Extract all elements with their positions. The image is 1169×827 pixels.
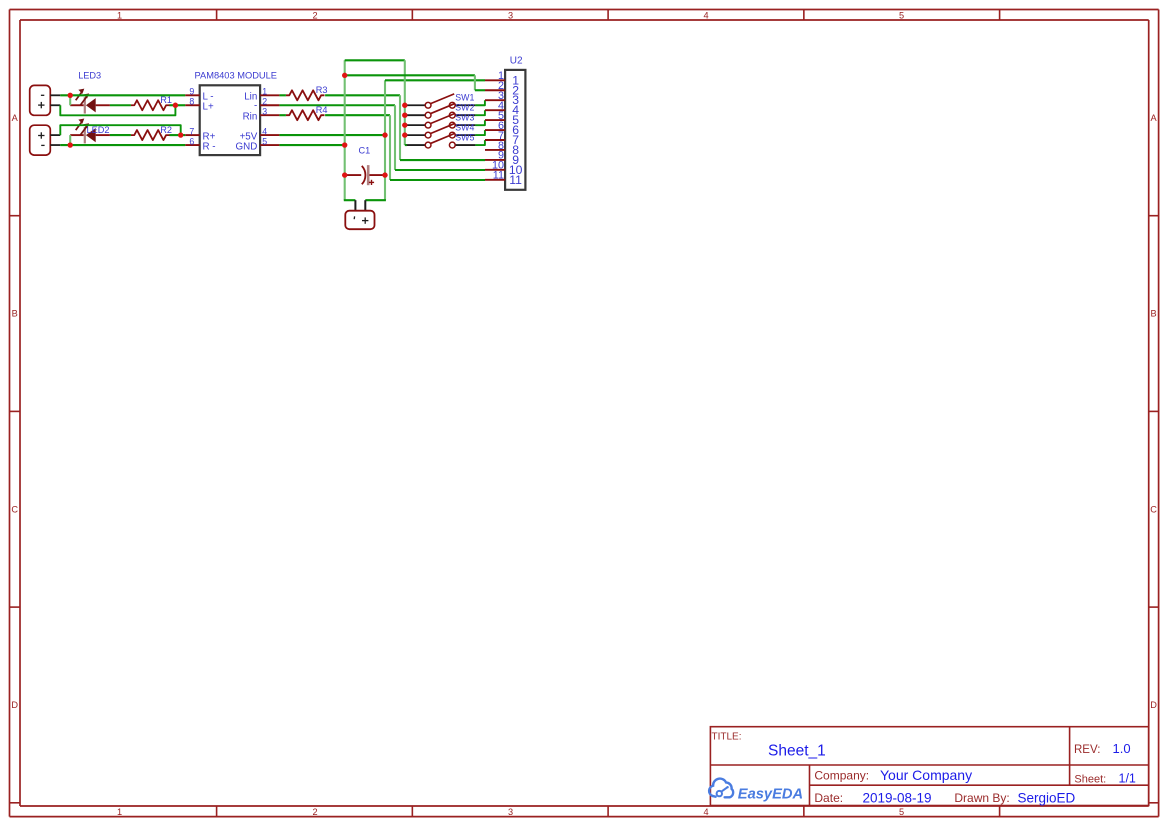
svg-text:5: 5 [899, 10, 904, 20]
svg-text:EasyEDA: EasyEDA [738, 786, 803, 802]
svg-text:LED2: LED2 [87, 125, 110, 135]
svg-text:5: 5 [899, 807, 904, 817]
svg-text:R3: R3 [316, 85, 328, 95]
svg-text:R4: R4 [316, 105, 328, 115]
svg-text:B: B [12, 309, 18, 319]
svg-text:5: 5 [262, 136, 267, 146]
svg-text:2: 2 [312, 10, 317, 20]
svg-text:2019-08-19: 2019-08-19 [863, 791, 932, 806]
svg-text:B: B [1151, 309, 1157, 319]
svg-text:Sheet:: Sheet: [1074, 774, 1106, 786]
svg-text:Company:: Company: [814, 769, 869, 783]
svg-text:SW4: SW4 [455, 123, 474, 133]
svg-text:U2: U2 [510, 56, 523, 67]
svg-text:R2: R2 [160, 125, 172, 135]
svg-text:SW2: SW2 [455, 103, 474, 113]
svg-text:A: A [12, 113, 19, 123]
svg-text:1: 1 [117, 807, 122, 817]
svg-text:Date:: Date: [814, 791, 843, 805]
svg-text:SergioED: SergioED [1018, 791, 1076, 806]
svg-text:LED3: LED3 [78, 70, 101, 80]
svg-text:-: - [254, 101, 257, 112]
svg-text:4: 4 [262, 126, 267, 136]
svg-text:2: 2 [262, 96, 267, 106]
svg-text:R1: R1 [160, 95, 172, 105]
svg-text:REV:: REV: [1074, 744, 1100, 756]
svg-text:L+: L+ [203, 101, 214, 112]
svg-text:R -: R - [203, 141, 216, 152]
svg-text:D: D [1150, 700, 1157, 710]
svg-text:Your Company: Your Company [880, 767, 972, 783]
svg-text:3: 3 [262, 106, 267, 116]
svg-text:Sheet_1: Sheet_1 [768, 743, 826, 760]
svg-text:SW1: SW1 [455, 93, 474, 103]
svg-text:SW3: SW3 [455, 113, 474, 123]
svg-text:11: 11 [493, 170, 504, 182]
svg-text:6: 6 [189, 136, 194, 146]
svg-text:7: 7 [189, 126, 194, 136]
svg-text:C: C [1150, 504, 1157, 514]
svg-text:2: 2 [312, 807, 317, 817]
svg-text:9: 9 [189, 87, 194, 97]
svg-text:C: C [11, 504, 18, 514]
svg-text:1: 1 [117, 10, 122, 20]
svg-text:1/1: 1/1 [1119, 772, 1136, 786]
svg-text:4: 4 [703, 10, 708, 20]
svg-text:SW5: SW5 [455, 132, 474, 142]
svg-text:3: 3 [508, 10, 513, 20]
svg-text:PAM8403 MODULE: PAM8403 MODULE [195, 71, 278, 81]
svg-text:3: 3 [508, 807, 513, 817]
svg-text:A: A [1151, 113, 1158, 123]
svg-text:1.0: 1.0 [1113, 741, 1131, 756]
svg-text:11: 11 [509, 173, 522, 187]
svg-text:C1: C1 [359, 146, 371, 156]
svg-text:D: D [11, 700, 18, 710]
svg-text:TITLE:: TITLE: [712, 732, 742, 743]
svg-text:4: 4 [703, 807, 708, 817]
svg-text:GND: GND [236, 141, 258, 152]
svg-text:1: 1 [262, 87, 267, 97]
svg-text:8: 8 [189, 96, 194, 106]
svg-text:Rin: Rin [243, 111, 258, 122]
svg-text:Drawn By:: Drawn By: [954, 791, 1009, 805]
